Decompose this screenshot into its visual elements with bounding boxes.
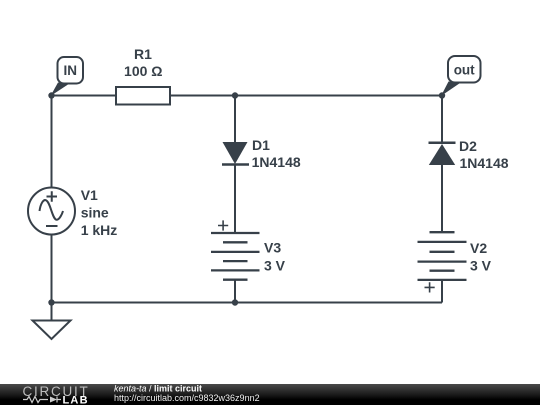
wire ground stem bbox=[51, 303, 53, 321]
diode D1 cathode bar bbox=[222, 163, 249, 166]
wire V2 to bottom rail bbox=[441, 280, 443, 303]
wire D2 branch top bbox=[441, 96, 443, 144]
svg-text:1 kHz: 1 kHz bbox=[81, 222, 118, 238]
svg-text:LAB: LAB bbox=[63, 394, 89, 405]
footer bar bbox=[0, 384, 540, 405]
logo diode bbox=[50, 397, 57, 403]
node out flag tail bbox=[441, 82, 462, 97]
svg-text:V3: V3 bbox=[264, 239, 281, 255]
svg-text:IN: IN bbox=[63, 63, 77, 78]
node out flag box bbox=[448, 56, 481, 83]
battery V2 labels bbox=[470, 240, 492, 274]
node ground junction dot bbox=[48, 299, 54, 305]
wire left vertical above V1 bbox=[51, 96, 53, 188]
voltage source V1 circle bbox=[28, 188, 75, 235]
svg-text:V2: V2 bbox=[470, 240, 487, 256]
wire left vertical below V1 bbox=[51, 235, 53, 303]
V1 labels bbox=[81, 187, 118, 238]
node IN flag tail bbox=[51, 83, 70, 97]
svg-text:kenta-ta / limit circuit: kenta-ta / limit circuit bbox=[114, 384, 202, 394]
svg-text:out: out bbox=[454, 63, 475, 78]
wire top rail IN node to out node bbox=[52, 95, 443, 97]
battery V3 labels bbox=[264, 239, 286, 273]
diode D2 labels bbox=[459, 138, 509, 171]
V1 plus sign bbox=[47, 191, 58, 201]
node D1 top junction dot bbox=[232, 92, 238, 98]
battery V3 plus sign bbox=[218, 220, 228, 230]
svg-text:R1: R1 bbox=[134, 46, 152, 62]
svg-text:1N4148: 1N4148 bbox=[460, 155, 509, 171]
battery V2 plates bbox=[418, 232, 467, 280]
svg-text:sine: sine bbox=[81, 205, 109, 221]
battery V3 plates bbox=[211, 233, 260, 280]
diode D2 cathode bar bbox=[429, 142, 456, 145]
diode D2 triangle bbox=[429, 144, 455, 165]
node V3 bottom junction dot bbox=[232, 299, 238, 305]
battery V2 plus sign bbox=[425, 282, 435, 292]
diode D1 labels bbox=[252, 137, 301, 170]
V1 sine wave bbox=[40, 200, 64, 220]
svg-text:1N4148: 1N4148 bbox=[252, 154, 301, 170]
logo resistor zigzag bbox=[23, 397, 48, 403]
node IN flag box bbox=[58, 57, 84, 84]
V1 minus sign bbox=[46, 225, 58, 227]
wire bottom rail bbox=[52, 302, 443, 304]
resistor R1 body bbox=[116, 87, 170, 105]
node IN junction dot bbox=[48, 92, 54, 98]
wire D2 to V2 bbox=[441, 165, 443, 233]
resistor R1 labels bbox=[124, 46, 162, 79]
wire D1 branch top bbox=[234, 96, 236, 144]
svg-text:V1: V1 bbox=[81, 187, 98, 203]
wire V3 to bottom rail bbox=[234, 280, 236, 303]
svg-text:D2: D2 bbox=[459, 138, 477, 154]
diode D1 triangle bbox=[223, 142, 248, 164]
svg-text:100 Ω: 100 Ω bbox=[124, 63, 162, 79]
ground bbox=[33, 321, 71, 340]
node out junction dot bbox=[439, 92, 445, 98]
svg-text:3 V: 3 V bbox=[470, 258, 492, 274]
svg-text:D1: D1 bbox=[252, 137, 270, 153]
wire D1 to V3 bbox=[234, 164, 236, 234]
svg-text:http://circuitlab.com/c9832w36: http://circuitlab.com/c9832w36z9nn2 bbox=[114, 393, 260, 403]
svg-text:3 V: 3 V bbox=[264, 258, 286, 274]
